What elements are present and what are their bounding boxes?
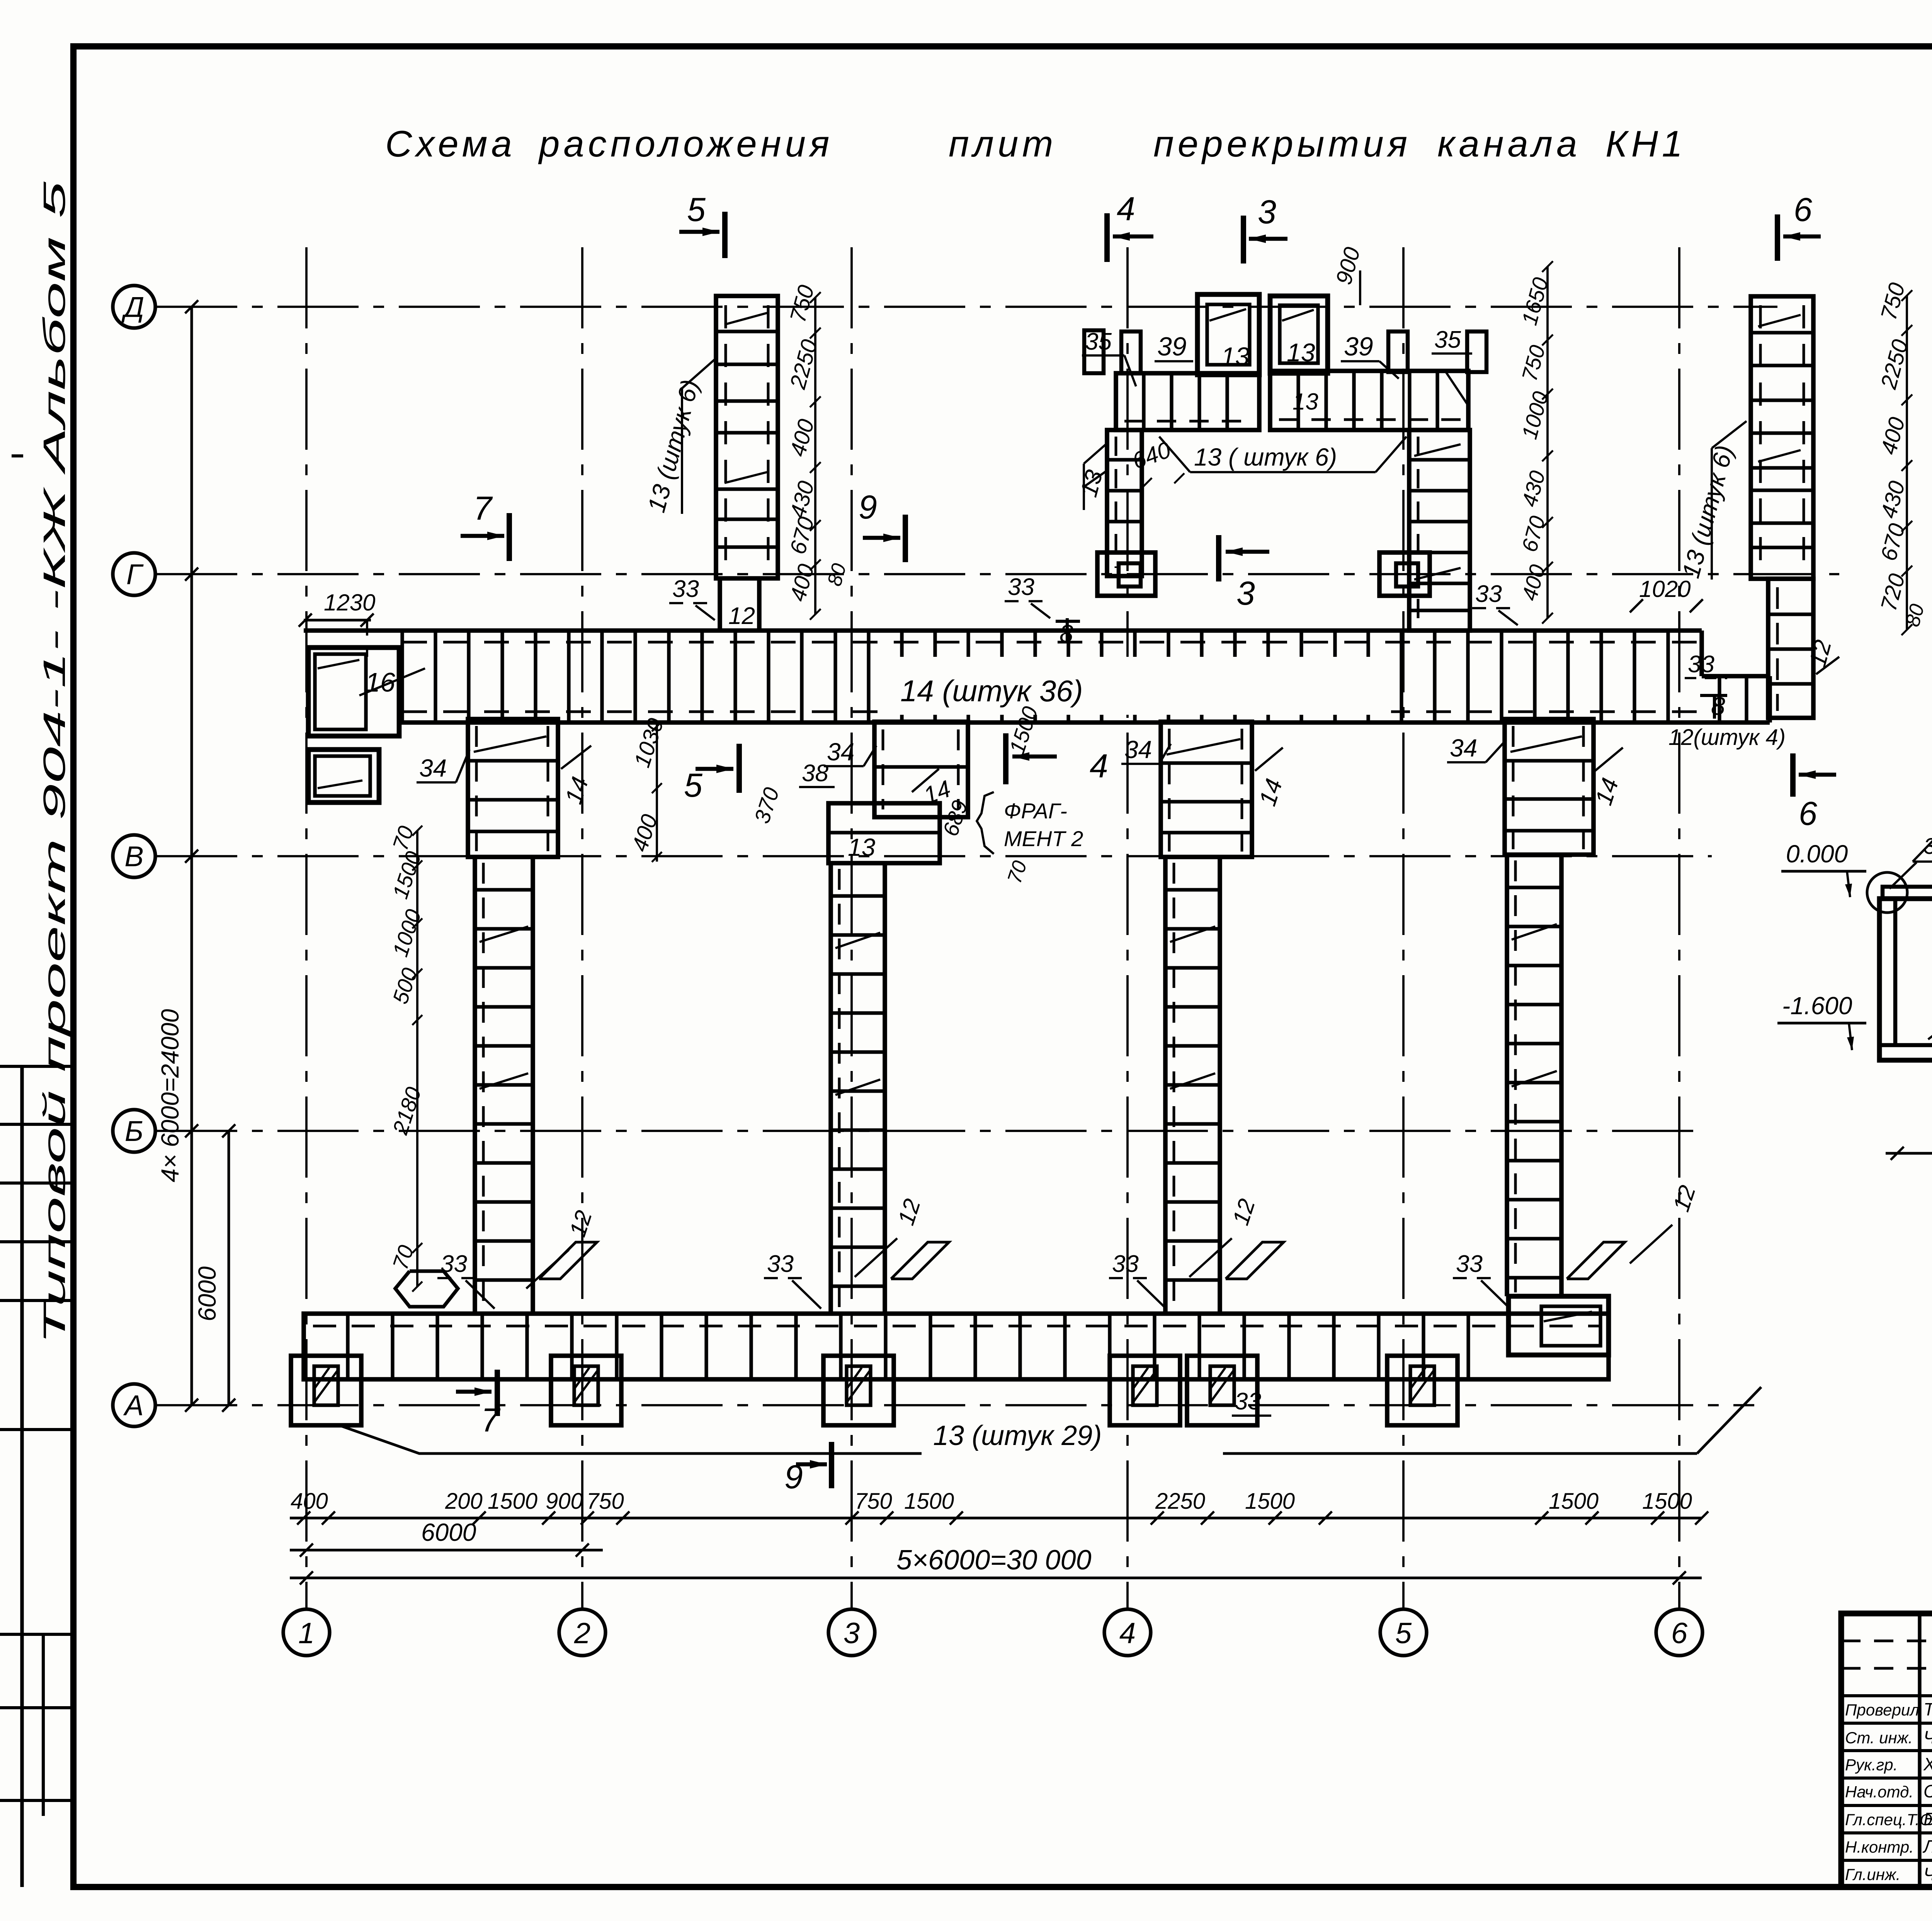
svg-text:КН1: КН1: [1605, 123, 1686, 165]
section mark 7 bottom: [456, 1370, 501, 1439]
center structure left square 13: [1197, 294, 1259, 375]
center structure tabs: [1084, 330, 1486, 373]
main title: [385, 123, 1686, 165]
svg-text:Схема: Схема: [385, 123, 516, 165]
section 4-4: level 0.000: [1781, 840, 1866, 897]
labels for middle ladders: [417, 704, 1624, 886]
section mark 5 in plan: [684, 744, 739, 804]
slab strip 14 rungs: [402, 631, 1668, 722]
top-left plate ladder 13 (6 pcs): [716, 296, 778, 578]
svg-text:900: 900: [546, 1489, 583, 1514]
svg-text:13: 13: [1221, 342, 1250, 371]
svg-text:Рук.гр.: Рук.гр.: [1845, 1756, 1898, 1774]
svg-text:Ст. инж.: Ст. инж.: [1845, 1729, 1913, 1747]
svg-text:34: 34: [1450, 734, 1477, 762]
section 4-4: level -1.600: [1777, 992, 1866, 1050]
svg-text:В: В: [124, 840, 143, 872]
center structure right vertical ladder: [1409, 430, 1470, 631]
bottom dimension row 1: [290, 1489, 1708, 1525]
section mark 3 in plan: [1219, 535, 1269, 612]
svg-text:39: 39: [1157, 332, 1187, 361]
svg-text:6000: 6000: [193, 1266, 221, 1321]
plate ladder column 1 narrow 13(8 pcs): [475, 857, 533, 1314]
section mark 6 in plan: [1793, 753, 1836, 832]
svg-text:7: 7: [481, 1402, 501, 1439]
svg-text:6: 6: [1799, 795, 1817, 832]
svg-text:35: 35: [1434, 326, 1461, 353]
svg-text:1500: 1500: [1245, 1489, 1295, 1514]
svg-text:Гл.инж.: Гл.инж.: [1845, 1865, 1900, 1884]
svg-text:13 ( штук 6): 13 ( штук 6): [1194, 443, 1337, 471]
svg-text:МЕНТ 2: МЕНТ 2: [1004, 826, 1083, 851]
left dimension chain 4x6000=24000: [156, 300, 198, 1412]
svg-text:750: 750: [855, 1489, 892, 1514]
dim column near top-right ladder: [1876, 280, 1929, 635]
dimension 1020: [1630, 576, 1703, 612]
label 13 (29 pcs) with leader: [338, 1387, 1761, 1453]
svg-text:канала: канала: [1437, 123, 1581, 165]
left margin binding marks: [0, 456, 73, 1887]
svg-text:5: 5: [684, 767, 703, 804]
grid bubble 3: [828, 1609, 875, 1656]
grid line Д: [156, 306, 1777, 308]
label 12 right end: [1804, 637, 1839, 674]
grid line 1: [305, 247, 308, 1608]
svg-text:Нач.отд.: Нач.отд.: [1845, 1783, 1913, 1801]
grid line 4: [1126, 247, 1129, 1608]
center left corner anchor: [1097, 552, 1155, 596]
labels 33 near line Г: [669, 574, 1518, 625]
grid bubble Г: [113, 553, 155, 595]
svg-text:1500: 1500: [1549, 1489, 1599, 1514]
grid bubble Б: [113, 1110, 155, 1152]
svg-text:14 (штук 36): 14 (штук 36): [900, 674, 1083, 708]
svg-text:33: 33: [767, 1251, 794, 1277]
section mark 6 top: [1777, 191, 1821, 261]
svg-text:12: 12: [728, 603, 755, 629]
svg-text:39: 39: [1344, 332, 1373, 361]
left dimension 6000: [193, 1124, 235, 1412]
label 16: [359, 667, 425, 697]
left dim stack near ladder 1: [388, 823, 426, 1292]
title block outer: [1841, 1613, 1932, 1887]
svg-text:38: 38: [802, 760, 828, 787]
svg-text:9: 9: [859, 489, 877, 526]
grid line 6: [1678, 247, 1680, 1608]
svg-text:5: 5: [687, 191, 706, 228]
center structure left horizontal band: [1116, 373, 1259, 430]
svg-text:34: 34: [827, 738, 854, 766]
title block signature rows: [1845, 1699, 1932, 1884]
grid line В: [156, 855, 1712, 857]
plate ladder column 1 head (34): [468, 719, 558, 857]
svg-text:0.000: 0.000: [1786, 840, 1848, 868]
svg-text:33: 33: [1456, 1251, 1483, 1277]
grid line Б: [156, 1130, 1700, 1132]
svg-text:33: 33: [1688, 651, 1714, 678]
anchor mark 8 near column 4: [1056, 618, 1080, 648]
svg-text:13: 13: [1293, 389, 1318, 415]
chamber 16 upper box: [308, 648, 399, 736]
svg-text:Проверил: Проверил: [1845, 1701, 1919, 1719]
labels 33 near bottom strip: [437, 1251, 1510, 1416]
plate ladder column 3 narrow 13(8 pcs): [1165, 857, 1220, 1314]
grid bubble 6: [1656, 1609, 1702, 1656]
center structure left vertical ladder: [1107, 430, 1142, 576]
anchor mark 8 on strip tail: [1700, 692, 1727, 720]
hexagon mark: [395, 1271, 458, 1307]
svg-text:3: 3: [1258, 194, 1276, 231]
grid bubble А: [113, 1384, 155, 1426]
grid bubble 5: [1380, 1609, 1427, 1656]
dim column near top-left ladder: [785, 282, 851, 620]
center right dim column: [1517, 261, 1553, 624]
plate ladder column 2 mid box 13: [828, 803, 940, 863]
grid bubble 1: [283, 1609, 330, 1656]
svg-text:6000: 6000: [421, 1518, 476, 1546]
svg-text:34: 34: [419, 754, 447, 782]
svg-text:2: 2: [574, 1617, 590, 1650]
svg-text:5×6000=30 000: 5×6000=30 000: [896, 1545, 1092, 1576]
svg-text:Четновский: Четновский: [1923, 1864, 1932, 1884]
svg-text:плит: плит: [949, 123, 1057, 165]
svg-text:Ханин: Ханин: [1923, 1754, 1932, 1774]
top-left ladder neck 12: [720, 578, 759, 631]
svg-text:Н.контр.: Н.контр.: [1845, 1838, 1914, 1856]
svg-text:Типовой проект 904-1- -КЖ: Типовой проект 904-1- -КЖ Альбом 5: [37, 181, 71, 1345]
plate ladder column 3 head (34): [1161, 722, 1252, 857]
svg-text:33: 33: [1008, 574, 1034, 600]
slab strip 13 (29 pcs): [304, 1314, 1609, 1379]
grid bubble 4: [1104, 1609, 1151, 1656]
svg-text:3: 3: [844, 1617, 860, 1650]
section 4-4: pit top slab 1: [1867, 872, 1932, 913]
svg-text:Лисенко: Лисенко: [1922, 1836, 1932, 1856]
svg-text:33: 33: [1475, 581, 1502, 607]
svg-text:33: 33: [1112, 1251, 1139, 1277]
svg-text:Д: Д: [121, 291, 144, 323]
svg-text:13 (штук 29): 13 (штук 29): [933, 1420, 1102, 1451]
svg-text:4× 6000=24000: 4× 6000=24000: [156, 1009, 184, 1182]
label 13(6pcs) top-right ladder: [1677, 421, 1747, 581]
svg-text:Гл.спец.Т.О: Гл.спец.Т.О: [1845, 1810, 1932, 1829]
svg-text:Боярченко: Боярченко: [1923, 1809, 1932, 1829]
section mark 7 top: [461, 490, 509, 561]
svg-text:4: 4: [1090, 748, 1108, 785]
top-right ladder lower part: [1768, 579, 1813, 718]
fragment 2 note: [977, 792, 1083, 854]
svg-text:12(штук 4): 12(штук 4): [1668, 725, 1786, 750]
svg-text:13: 13: [1287, 338, 1315, 367]
svg-text:1500: 1500: [488, 1489, 537, 1514]
plate ladder column 4 head (34): [1505, 719, 1594, 855]
plate ladder column 4 narrow 13(8 pcs): [1507, 855, 1561, 1296]
svg-text:1500: 1500: [904, 1489, 954, 1514]
label 13(6pcs) top-left ladder: [642, 359, 715, 515]
svg-text:750: 750: [587, 1489, 624, 1514]
grid line 5: [1402, 247, 1405, 1608]
footings below line A: [291, 1356, 1458, 1425]
svg-text:400: 400: [291, 1489, 328, 1514]
dimension 1230: [299, 590, 375, 657]
section mark 5 top: [679, 191, 725, 258]
svg-text:200: 200: [445, 1489, 483, 1514]
strip label white patch: [889, 657, 1391, 715]
svg-text:расположения: расположения: [538, 123, 833, 165]
bottom strip right end box: [1509, 1296, 1609, 1355]
svg-text:Салкьянц: Салкьянц: [1923, 1781, 1932, 1801]
svg-text:1230: 1230: [324, 590, 375, 615]
svg-text:6: 6: [1671, 1617, 1688, 1650]
svg-text:перекрытия: перекрытия: [1153, 123, 1411, 165]
svg-text:Толмачева: Толмачева: [1923, 1699, 1932, 1719]
svg-text:1: 1: [298, 1617, 315, 1650]
svg-text:3: 3: [1236, 575, 1255, 612]
grid line 3: [850, 247, 853, 1608]
center structure right square 13: [1270, 296, 1328, 373]
svg-text:6: 6: [1794, 191, 1812, 228]
section mark 4 in plan: [1006, 733, 1108, 785]
svg-text:Б: Б: [125, 1115, 143, 1147]
bottom dimension row 2 (6000): [290, 1518, 603, 1557]
svg-text:ФРАГ-: ФРАГ-: [1004, 799, 1067, 823]
svg-text:Г: Г: [126, 558, 144, 590]
slab strip 14 (36 pcs) outline: [304, 631, 1770, 722]
grid bubble В: [113, 835, 155, 877]
section 4-4: left pit 24: [1879, 899, 1932, 1060]
label 12 (4 pcs): [1668, 725, 1786, 750]
section mark 3 top: [1243, 194, 1287, 263]
grid line 2: [581, 247, 583, 1608]
grid line А: [156, 1404, 1754, 1406]
plate ladder column 2 narrow 13(8 pcs): [831, 863, 885, 1314]
plate ladder column 2 upper box: [874, 722, 968, 817]
title block left columns: [1841, 1613, 1932, 1887]
section mark 9 top: [859, 489, 905, 562]
svg-text:2250: 2250: [1155, 1489, 1205, 1514]
section mark 4 top: [1107, 190, 1153, 262]
left margin vertical stamp text: [37, 181, 71, 1345]
svg-text:33: 33: [672, 576, 699, 602]
svg-text:34: 34: [1124, 736, 1152, 763]
grid bubble 2: [559, 1609, 605, 1656]
svg-text:4: 4: [1117, 190, 1135, 228]
center structure right horizontal band: [1270, 371, 1468, 430]
svg-text:-1.600: -1.600: [1782, 992, 1852, 1020]
svg-text:35: 35: [1085, 328, 1112, 355]
svg-text:5: 5: [1395, 1617, 1412, 1650]
svg-text:Чернявская: Чернявская: [1923, 1727, 1932, 1747]
svg-text:7: 7: [473, 490, 493, 527]
svg-text:1500: 1500: [1642, 1489, 1692, 1514]
section mark 9 bottom: [784, 1442, 832, 1496]
center right corner anchor: [1379, 552, 1430, 596]
chamber 16 lower box: [308, 750, 379, 802]
svg-text:4: 4: [1119, 1617, 1136, 1650]
top-right plate ladder 13 (6 pcs): [1751, 296, 1813, 579]
svg-text:1020: 1020: [1639, 576, 1690, 602]
bottom dimension row 3 (5x6000=30000): [290, 1545, 1702, 1584]
labels 12 rotated near ladder bottoms: [526, 1182, 1701, 1289]
grid line Г: [156, 573, 1839, 575]
section 4-4: main dimension row: [1886, 1120, 1932, 1160]
section 4-4: slab note 3.006: [1889, 804, 1932, 889]
center labels: [1075, 245, 1472, 510]
grid bubble Д: [113, 286, 155, 328]
hatch parallelograms near ladder bottoms: [539, 1242, 1625, 1279]
label 33 near strip right end: [1685, 651, 1727, 678]
svg-text:А: А: [123, 1389, 143, 1421]
svg-text:13: 13: [848, 833, 876, 861]
